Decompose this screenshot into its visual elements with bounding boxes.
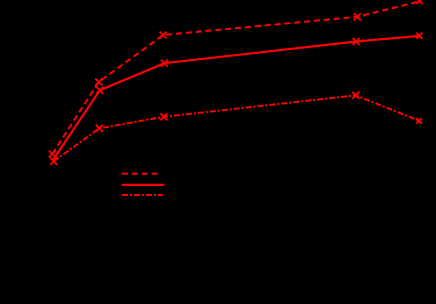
curve C markers bbox=[50, 92, 422, 165]
curve B markers bbox=[96, 33, 422, 94]
curve A (dashed) line bbox=[52, 1, 420, 154]
curve A markers bbox=[49, 0, 423, 158]
curve C (dash-dot) line bbox=[54, 95, 420, 161]
legend sample dash-dot bbox=[122, 194, 163, 196]
curve B (solid) line bbox=[53, 36, 420, 160]
legend sample dashed bbox=[122, 173, 158, 175]
legend sample solid bbox=[122, 184, 164, 186]
